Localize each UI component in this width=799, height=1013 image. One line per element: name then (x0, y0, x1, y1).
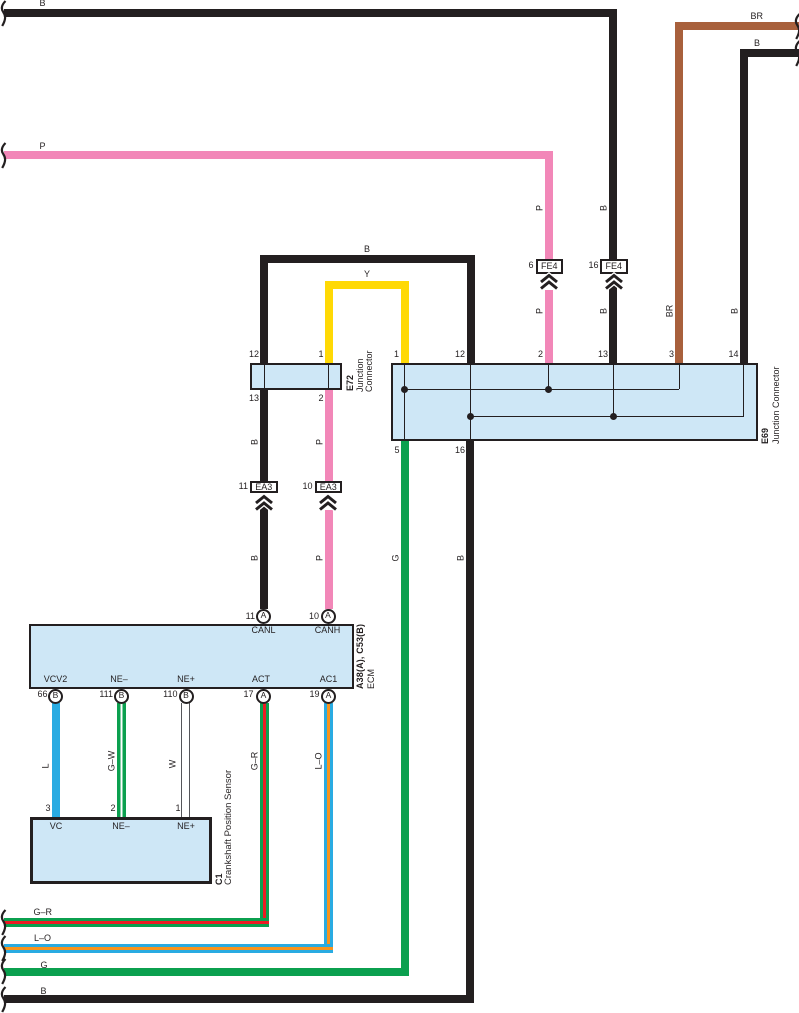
vertical label W (168, 760, 177, 769)
break symbol left edge on wire G (0, 958, 9, 985)
ECM pin 10 number (309, 612, 319, 621)
ECM terminal name CANH (307, 626, 348, 635)
E69 junction dot pin 2 (545, 386, 552, 393)
name Crankshaft Position Sensor (224, 769, 233, 884)
ECM terminal name ACT (241, 675, 281, 684)
E69 pin 5 number (394, 446, 399, 455)
EA3 pin 10 number (302, 482, 312, 491)
C1 terminal name VC (36, 822, 76, 831)
connector FE4 (pin 16) box (600, 259, 628, 274)
E69 pin 1 number (394, 350, 399, 359)
vertical label P above E69 pin 2 (535, 307, 544, 313)
wire G horizontal to left edge (4, 968, 409, 976)
E72 pin 2 number (318, 394, 323, 403)
connector EA3 (pin 10) chevron arrow (318, 495, 338, 511)
ECM pin 110 number (163, 690, 177, 699)
vertical label G-R (250, 752, 259, 771)
vertical label L-O (315, 752, 324, 769)
ECM pin 10 terminal circle A (321, 609, 336, 624)
ECM pin 19 number (309, 690, 319, 699)
wire G-R vertical from ECM pin 17 ACT (260, 703, 269, 927)
E69 pin 2 number (538, 350, 543, 359)
connector FE4 (pin 6) box (536, 259, 564, 274)
vertical label G below E69 pin 5 (392, 554, 401, 561)
C1 pin 3 number (45, 804, 50, 813)
connector EA3 (pin 11) chevron arrow (254, 495, 274, 511)
E69 internal line pin 14 stub (743, 365, 744, 416)
break symbol right edge on wire B second (794, 40, 799, 67)
label wire B bottom (41, 987, 47, 996)
label wire L-O bottom (34, 934, 51, 943)
connector FE4 (pin 6) chevron arrow (539, 274, 559, 290)
vertical label BR above E69 pin 3 (665, 305, 674, 318)
wire L-O vertical from ECM pin 19 AC1 (324, 703, 333, 954)
ECM pin 11 terminal circle A (256, 609, 271, 624)
name ECM (367, 669, 376, 689)
vertical label B below E69 pin 16 (457, 555, 466, 561)
designator A38(A), C53(B) (356, 624, 365, 689)
wire L blue ECM pin 66 VCV2 to sensor pin 3 VC (52, 703, 60, 817)
label wire G bottom (41, 961, 48, 970)
label wire P (40, 142, 46, 151)
wire B second horizontal from right edge (740, 49, 799, 57)
wire P vertical down to connector FE4 pin 6 (545, 151, 553, 260)
E69 pin 13 number (598, 350, 608, 359)
C1 pin 1 number (175, 804, 180, 813)
wire B bottom horizontal to left edge (4, 995, 474, 1003)
wire BR vertical down to E69 pin 3 (675, 22, 683, 363)
wire P vertical E72 pin 2 to connector EA3 pin 10 (325, 390, 333, 481)
E69 junction dot pin 12 (467, 413, 474, 420)
E69 internal line pin 3 stub (679, 365, 680, 389)
FE4 pin 6 number (528, 261, 533, 270)
ECM terminal name VCV2 (36, 675, 76, 684)
ECM terminal name NE+ (166, 675, 206, 684)
designator C1 (215, 873, 224, 885)
EA3 pin 11 number (239, 482, 248, 491)
wire B top horizontal (battery ground feed) (4, 9, 617, 17)
break symbol left edge on wire B bottom (0, 986, 9, 1013)
E69 internal bus 2 (pins 12-13-14) (470, 416, 744, 417)
E69 pin 16 number (455, 446, 465, 455)
E69 internal line pin 12 to pin 16 (470, 365, 471, 439)
wire B loop horizontal E72 pin 12 to E69 pin 12 (260, 255, 475, 263)
vertical label G-W (107, 751, 116, 772)
ECM pin 66 terminal circle B (48, 689, 63, 704)
crankshaft position sensor C1 body (30, 817, 212, 885)
designator E69 (761, 427, 770, 443)
break symbol left edge on wire P (0, 142, 9, 169)
wire G-W ECM pin 111 NE- to sensor pin 2 (117, 703, 126, 817)
vertical label B between E72 and EA3 (251, 439, 260, 445)
vertical label P above FE4 (535, 205, 544, 211)
break symbol right edge on wire BR (794, 13, 799, 40)
wire P segment EA3 to ECM pin 10 CANH (325, 510, 333, 609)
ECM pin 17 terminal circle A (256, 689, 271, 704)
designator E72 (346, 375, 355, 391)
ECM pin 66 number (37, 690, 47, 699)
ECM terminal name CANL (243, 626, 284, 635)
break symbol left edge on wire G-R (0, 909, 9, 936)
ECM pin 110 terminal circle B (179, 689, 194, 704)
E69 junction dot pin 1 (401, 386, 408, 393)
E72 internal joint line pins 12-13 (264, 365, 265, 388)
label wire G-R bottom (34, 908, 53, 917)
E69 pin 3 number (669, 350, 674, 359)
vertical label B above E69 pin 13 (600, 307, 609, 313)
E72 pin 1 number (318, 350, 323, 359)
wire B bottom vertical from E69 pin 16 (466, 441, 474, 1003)
ECM pin 11 number (246, 612, 255, 621)
E72 pin 12 number (249, 350, 259, 359)
E69 junction dot pin 13 (610, 413, 617, 420)
junction connector E72 body (250, 363, 342, 390)
wire B vertical E72 pin 13 to connector EA3 pin 11 (260, 390, 268, 481)
vertical label P between E72 and EA3 (315, 439, 324, 445)
label wire BR (751, 12, 764, 21)
E69 internal bus 1 (pins 1-2-3) (404, 389, 679, 390)
wire L-O horizontal to left edge (4, 944, 333, 953)
name E69 Junction Connector (772, 366, 781, 444)
connector EA3 (pin 10) box (315, 481, 343, 494)
ECM terminal name NE- (99, 675, 139, 684)
wire Y loop horizontal E72 pin 1 to E69 pin 1 (325, 281, 409, 289)
C1 terminal name NE- (101, 822, 141, 831)
E69 pin 12 number (455, 350, 465, 359)
wire B loop left vertical into E72 pin 12 (260, 255, 268, 363)
wire B segment EA3 to ECM pin 11 CANL (260, 502, 268, 609)
junction connector E69 body (391, 363, 758, 441)
vertical label P between EA3 and ECM (315, 555, 324, 561)
break symbol left edge on wire B top (0, 0, 9, 27)
wire P segment FE4 to E69 pin 2 (545, 290, 553, 364)
ECM pin 19 terminal circle A (321, 689, 336, 704)
vertical label B between EA3 and ECM (251, 555, 260, 561)
name E72 Junction Connector (356, 350, 374, 392)
C1 pin 2 number (110, 804, 115, 813)
C1 terminal name NE+ (166, 822, 206, 831)
ECM pin 17 number (243, 690, 253, 699)
ECM terminal name AC1 (308, 675, 349, 684)
vertical label B above E69 pin 14 (730, 308, 739, 314)
FE4 pin 16 number (588, 261, 598, 270)
wire G-R horizontal to left edge (4, 918, 269, 927)
ECM body A38(A) C53(B) (29, 624, 354, 689)
connector EA3 (pin 11) box (250, 481, 278, 494)
wire BR horizontal from right edge (675, 22, 799, 30)
vertical label L (42, 763, 51, 768)
E72 internal joint line pins 1-2 (328, 365, 329, 388)
label wire Y loop (364, 270, 370, 279)
connector FE4 (pin 16) chevron arrow (604, 274, 624, 290)
wire Y loop left vertical into E72 pin 1 (325, 281, 333, 363)
ECM pin 111 terminal circle B (114, 689, 129, 704)
ECM pin 111 number (99, 690, 113, 699)
break symbol left edge on wire L-O (0, 935, 9, 962)
E69 internal line pin 2 stub (548, 365, 549, 389)
label wire B loop (364, 245, 370, 254)
wire B loop right vertical into E69 pin 12 (467, 255, 475, 363)
wire W ECM pin 110 NE+ to sensor pin 1 (181, 703, 190, 817)
label wire B right (754, 39, 760, 48)
E69 internal line pin 1 to pin 5 (404, 365, 405, 439)
wire G vertical from E69 pin 5 (401, 441, 409, 976)
wire P horizontal from left edge (4, 151, 553, 159)
vertical label B above FE4 (600, 205, 609, 211)
wire B segment FE4 to E69 pin 13 (609, 282, 617, 364)
wire Y loop right vertical into E69 pin 1 (401, 281, 409, 363)
E69 pin 14 number (728, 350, 738, 359)
E69 internal line pin 13 stub (613, 365, 614, 416)
E72 pin 13 number (249, 394, 259, 403)
label wire B top (40, 0, 46, 8)
wire B top vertical down to connector FE4 pin 16 (609, 9, 617, 260)
wire B vertical down to E69 pin 14 (740, 49, 748, 363)
